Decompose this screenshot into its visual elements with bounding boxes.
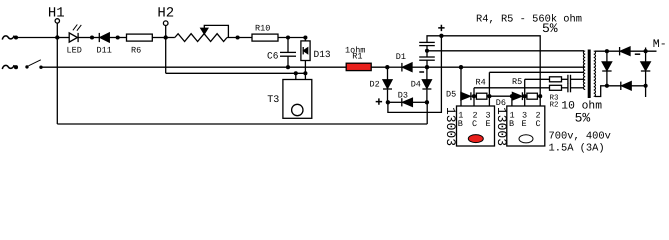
label plus at bridge xyxy=(376,98,382,104)
resistor R10 xyxy=(252,24,305,42)
svg-text:M-: M- xyxy=(653,38,667,51)
node xyxy=(236,35,240,39)
node: bridge plus node xyxy=(386,100,390,104)
svg-text:13003: 13003 xyxy=(494,107,509,146)
transformer T1 (main) xyxy=(583,50,595,99)
svg-text:C: C xyxy=(472,119,477,129)
node: C6 top junction xyxy=(286,35,290,39)
node: D5 feed junction on neutral rail xyxy=(459,65,463,69)
AC source symbol top (~) xyxy=(2,36,14,40)
terminal H1 xyxy=(48,5,65,23)
svg-text:H2: H2 xyxy=(157,5,174,21)
resistor R1 (red fusible) xyxy=(345,46,387,71)
node: D6 anode dot xyxy=(510,94,514,98)
diode D9 (output right) xyxy=(641,51,650,86)
node: T3 pin junctions xyxy=(294,71,298,75)
resistor R2 xyxy=(550,85,568,109)
terminal H2 xyxy=(157,5,174,37)
svg-text:5%: 5% xyxy=(542,21,558,36)
diode D6 xyxy=(496,92,527,108)
node: top AC input dot xyxy=(14,35,18,39)
svg-text:T3: T3 xyxy=(267,95,279,106)
node: cap bottom on neutral wire xyxy=(425,65,429,69)
node: output bridge bottom-right xyxy=(644,84,648,88)
node: D5 cathode dot xyxy=(472,94,476,98)
svg-text:1.5A (3A): 1.5A (3A) xyxy=(549,142,605,153)
node: R4 right dot xyxy=(487,94,491,98)
svg-text:C: C xyxy=(536,119,541,129)
diode D4 xyxy=(411,67,432,102)
resistor R4 xyxy=(476,77,490,99)
node: bridge minus/AC2 node xyxy=(425,100,429,104)
capacitor C4 (R3 row) xyxy=(568,75,584,84)
svg-text:R4, R5 - 560k ohm: R4, R5 - 560k ohm xyxy=(476,13,582,25)
label minus at caps xyxy=(419,71,424,73)
wire: H2 down to T3 feed xyxy=(165,38,167,74)
node: D6 cathode dot xyxy=(523,94,527,98)
svg-text:C6: C6 xyxy=(267,50,279,61)
wire: W3 rail to transformer xyxy=(489,71,584,73)
wire: R3 row rail xyxy=(525,78,550,80)
node: C6 bottom junction xyxy=(286,65,290,69)
svg-text:E: E xyxy=(486,119,491,129)
wire: M- stub xyxy=(645,48,647,52)
transistor Q2 (13003) xyxy=(494,106,545,146)
resistor R6 xyxy=(118,34,166,55)
switch S1 xyxy=(14,60,43,69)
capacitor C2 (upper half-bridge cap) xyxy=(419,36,441,51)
diode D8 (output left) xyxy=(602,51,611,86)
wire: secondary top output xyxy=(595,50,657,52)
node: output bridge bottom-left xyxy=(605,84,609,88)
wire: Q1 collector stub xyxy=(473,96,475,106)
svg-text:13003: 13003 xyxy=(443,107,458,146)
wire: top DC rail xyxy=(441,36,540,96)
wire: R4 node riser to W3 rail xyxy=(488,72,490,96)
diode D7 (output top) xyxy=(620,47,630,55)
svg-text:D1: D1 xyxy=(396,52,406,62)
wire: Q2 collector stub xyxy=(539,96,541,106)
wire: neutral line (switch to R1) xyxy=(43,66,347,68)
capacitor C3 (lower half-bridge cap) xyxy=(419,51,435,67)
node: H1 junction on top wire xyxy=(55,35,59,39)
diode D11 xyxy=(92,33,118,56)
wire: neutral/W2 to transformer xyxy=(427,66,584,68)
svg-text:D5: D5 xyxy=(446,90,456,100)
svg-text:LED: LED xyxy=(67,46,82,56)
wire: Q2 base stub xyxy=(511,96,513,106)
svg-text:E: E xyxy=(522,119,527,129)
svg-text:D13: D13 xyxy=(314,49,331,60)
label minus at output xyxy=(635,53,640,55)
capacitor C5 (R2 row) xyxy=(568,83,584,92)
svg-text:R10: R10 xyxy=(255,24,270,34)
diode D3 xyxy=(388,91,427,107)
wire: D6 node riser to R3 row xyxy=(524,79,526,96)
wire: plus rail (bridge to DC+) xyxy=(388,36,442,113)
capacitor C6 xyxy=(267,38,296,68)
wire: Q1 emitter stub xyxy=(488,96,490,106)
node xyxy=(116,35,120,39)
node: caps midpoint xyxy=(425,49,429,53)
resistor R5 xyxy=(512,77,540,99)
diode D5 xyxy=(446,90,476,101)
svg-text:D4: D4 xyxy=(411,79,421,89)
resistor R3 xyxy=(550,77,568,103)
diode D1 xyxy=(387,52,427,72)
wire: riser to D5 anode and Q1 base xyxy=(460,67,462,106)
wire: H1 vertical down to bottom rail xyxy=(56,23,58,124)
diode D10 (output bottom) xyxy=(621,82,631,90)
wire: secondary bottom output xyxy=(595,86,646,97)
wire: midpoint rail W1 to transformer xyxy=(427,50,584,52)
node: bridge AC node left xyxy=(385,65,389,69)
wire: top AC input to H1 junction xyxy=(16,37,57,39)
svg-text:D2: D2 xyxy=(370,80,380,90)
node: DC+ dot xyxy=(439,34,443,38)
transformer T3 (feedback toroid) xyxy=(267,73,312,118)
diode D2 xyxy=(370,67,393,102)
wire: R4 node to D6 xyxy=(489,95,512,97)
svg-text:R2: R2 xyxy=(550,100,559,109)
wire: R2 row rail xyxy=(474,87,550,89)
wire: D5 node riser to R2 row xyxy=(473,88,475,96)
svg-text:R1: R1 xyxy=(352,52,362,62)
svg-text:R6: R6 xyxy=(131,46,141,56)
wire: bottom rail up to bridge xyxy=(426,102,428,124)
wire: bottom rail xyxy=(57,123,427,125)
LED xyxy=(57,25,92,56)
svg-text:R5: R5 xyxy=(512,77,522,87)
node: D13 top junction xyxy=(303,35,307,39)
svg-text:5%: 5% xyxy=(575,111,591,126)
AC source symbol bottom (~) xyxy=(2,65,14,69)
svg-text:R4: R4 xyxy=(476,77,486,87)
diac D13 (boxed diode) xyxy=(301,38,331,74)
svg-text:700v, 400v: 700v, 400v xyxy=(549,131,611,143)
label plus at DC rail xyxy=(438,25,444,31)
node xyxy=(90,35,94,39)
svg-text:D3: D3 xyxy=(398,91,408,101)
node: output bridge top-right xyxy=(644,49,648,53)
node: H2 junction xyxy=(164,35,168,39)
wire: Q2 emitter stub xyxy=(524,96,526,106)
rheostat VR1 (zigzag with wiper) xyxy=(166,25,252,41)
svg-text:D11: D11 xyxy=(97,46,112,56)
transistor Q1 (13003) xyxy=(443,106,495,146)
wire: output minus stub down xyxy=(645,86,647,97)
node: R5 right dot xyxy=(538,94,542,98)
node: output bridge top-left xyxy=(605,49,609,53)
